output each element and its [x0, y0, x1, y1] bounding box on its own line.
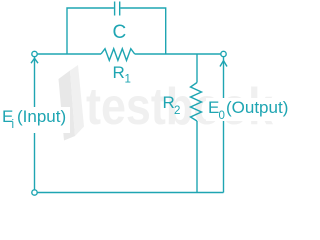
svg-text:C: C — [113, 22, 127, 43]
svg-text:(Input): (Input) — [17, 107, 66, 126]
svg-text:R: R — [113, 63, 125, 82]
svg-text:i: i — [12, 119, 15, 131]
svg-text:2: 2 — [174, 105, 180, 117]
svg-text:(Output): (Output) — [226, 98, 288, 117]
svg-text:R: R — [163, 93, 175, 112]
svg-text:1: 1 — [125, 74, 131, 86]
svg-text:0: 0 — [219, 110, 225, 122]
